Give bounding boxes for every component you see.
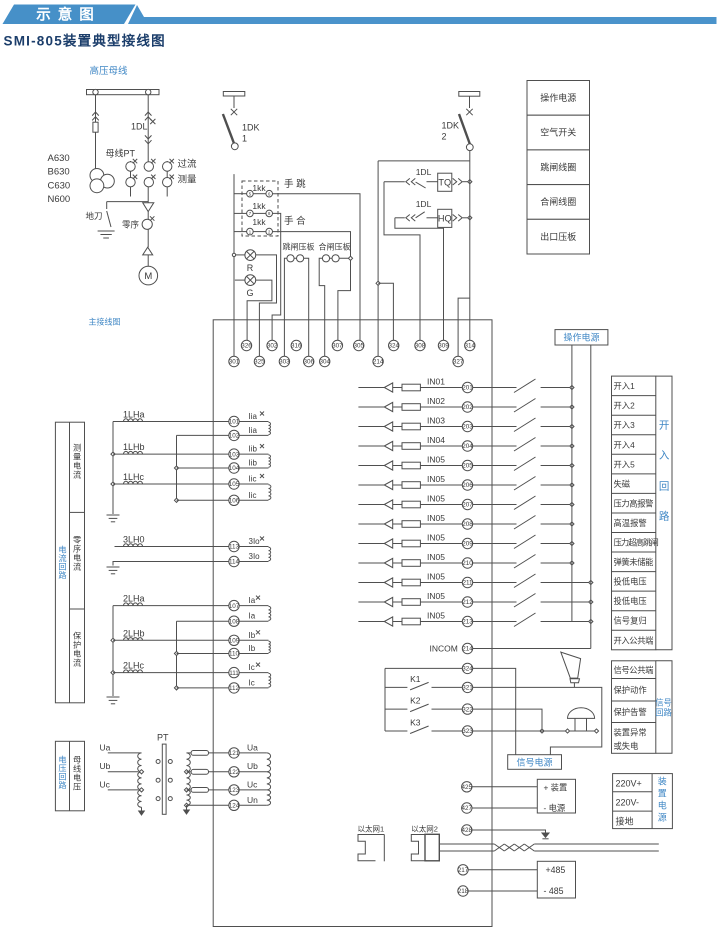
- svg-text:手 跳: 手 跳: [284, 178, 306, 190]
- terminal 211: [462, 577, 473, 587]
- terminal 201: [462, 382, 473, 392]
- svg-text:1LHc: 1LHc: [123, 472, 145, 482]
- PT core bar: [162, 744, 166, 814]
- svg-text:3Io: 3Io: [249, 552, 261, 561]
- label 母线电压 vertical: [73, 756, 81, 792]
- earth switch blade: [107, 211, 111, 227]
- device winding 1LHa bottom stub: [239, 434, 268, 436]
- wire 205 to supply bus: [541, 465, 572, 467]
- wire 210 to supply bus: [541, 562, 572, 564]
- junction input bus 209: [570, 541, 574, 545]
- wire 213 tri-res: [393, 621, 402, 623]
- wire INCOM to supply bus: [473, 648, 591, 650]
- wire HQ blade to coil: [427, 217, 438, 219]
- svg-text:206: 206: [462, 482, 473, 489]
- svg-text:操作电源: 操作电源: [540, 92, 576, 103]
- svg-text:+ 装置: + 装置: [544, 782, 568, 792]
- CT 2LHb primary line: [113, 639, 229, 641]
- wire 1kk left bus: [233, 174, 235, 356]
- svg-text:103: 103: [229, 451, 240, 458]
- junction HQ-out on bus: [468, 216, 472, 220]
- device winding 2LHb bottom stub: [239, 653, 268, 655]
- svg-text:电: 电: [58, 755, 66, 765]
- connector chevrons HQ out: [453, 215, 463, 222]
- device winding 1LHb bottom stub: [239, 467, 268, 469]
- svg-text:218: 218: [458, 888, 469, 895]
- 信号电源 label box: [508, 755, 562, 770]
- svg-text:1DL: 1DL: [416, 167, 432, 177]
- device voltage winding a: [267, 753, 271, 772]
- device winding 1LHc bottom stub: [239, 499, 268, 501]
- CT 1LHb primary line: [113, 453, 229, 455]
- wire HQ row left segment: [395, 217, 405, 219]
- wire 207 to terminal: [420, 504, 462, 506]
- junction input bus 202: [570, 405, 574, 409]
- CT 1LHc winding: [124, 481, 143, 484]
- svg-text:122: 122: [229, 769, 240, 776]
- CT circle col1 xmark1: [133, 159, 137, 163]
- svg-text:M: M: [144, 271, 152, 282]
- svg-text:TQ: TQ: [438, 177, 451, 187]
- terminal 217: [458, 865, 469, 875]
- wire TQ out to bus: [463, 181, 470, 183]
- 1DK1 stem: [233, 96, 235, 108]
- svg-text:111: 111: [229, 670, 239, 677]
- svg-text:112: 112: [229, 685, 240, 692]
- svg-text:IN05: IN05: [427, 591, 445, 601]
- RS485 box: [537, 861, 575, 898]
- wire HQ out to bus: [463, 217, 470, 219]
- wire return 108: [177, 620, 229, 622]
- external contact blade 205: [514, 457, 536, 471]
- wire K left bus: [384, 668, 386, 731]
- CT circle col1 row1: [126, 162, 135, 171]
- junction prot bus 2LHc: [111, 671, 115, 675]
- opto LED triangle 203: [384, 422, 392, 431]
- supply bus 2 (操作电源-): [590, 345, 592, 649]
- label 开入回路 vertical blue: [659, 420, 670, 523]
- opto LED triangle 207: [384, 500, 392, 509]
- terminal 205: [462, 460, 473, 470]
- svg-text:合闸线圈: 合闸线圈: [540, 196, 576, 207]
- svg-text:Ib: Ib: [249, 631, 256, 640]
- svg-text:1: 1: [242, 134, 247, 144]
- svg-text:信号: 信号: [655, 698, 672, 708]
- svg-text:107: 107: [229, 603, 240, 610]
- wire Ua primary: [108, 752, 139, 754]
- binary input row 212 lead: [358, 601, 384, 603]
- zero-seq CT circle: [142, 219, 152, 229]
- svg-text:开入3: 开入3: [614, 420, 636, 430]
- 1DK1 blade: [223, 114, 234, 144]
- wire K3 row left: [385, 730, 407, 732]
- svg-text:212: 212: [462, 599, 473, 606]
- junction 322/323: [540, 729, 544, 733]
- binary input row 210 lead: [358, 562, 384, 564]
- binary input row 213 lead: [358, 621, 384, 623]
- 1kk dashed box: [242, 181, 278, 236]
- wire feeder-B upper: [147, 95, 149, 162]
- connector chevrons HQ in: [406, 215, 416, 222]
- svg-text:以太网2: 以太网2: [411, 824, 438, 834]
- wire 201 to terminal: [420, 387, 462, 389]
- CT 3LH0 winding: [124, 544, 143, 547]
- 开入 label boxes grid: [612, 376, 656, 650]
- svg-text:Ic: Ic: [249, 678, 255, 687]
- svg-text:K2: K2: [410, 696, 421, 706]
- external contact blade 206: [514, 477, 536, 491]
- svg-text:1LHb: 1LHb: [123, 442, 145, 452]
- svg-text:301: 301: [229, 359, 240, 366]
- ground symbol earth-switch: [98, 231, 115, 238]
- label 保护电流 vertical: [73, 631, 82, 668]
- label 信号回路 blue: [655, 698, 672, 718]
- wire 217 to 485 box: [468, 869, 537, 871]
- polarity mark 3LH0: [260, 537, 264, 541]
- polarity mark 1LHc: [260, 474, 264, 478]
- wire 324 to K bus: [385, 667, 462, 669]
- terminal 213: [462, 616, 473, 626]
- wire to lamp R: [236, 254, 245, 256]
- svg-text:204: 204: [462, 443, 473, 450]
- terminal 113: [229, 541, 240, 551]
- opto LED triangle 212: [384, 597, 392, 606]
- svg-text:Iic: Iic: [249, 475, 257, 484]
- terminal 322: [462, 704, 473, 714]
- PT primary winding b: [138, 772, 142, 790]
- svg-text:跳闸线圈: 跳闸线圈: [540, 161, 576, 172]
- wire Uc secondary to fuse: [187, 789, 192, 791]
- wire row1 right to terminal 305: [273, 194, 361, 341]
- wire feeder-B to delta: [147, 187, 149, 203]
- wire row1 left: [234, 193, 247, 195]
- fuse FU-Ua: [191, 751, 208, 756]
- wire 206 external: [473, 484, 517, 486]
- svg-text:IN05: IN05: [427, 610, 445, 620]
- svg-text:B630: B630: [48, 167, 70, 178]
- 1DL aux contact HQ blade: [416, 212, 425, 218]
- connector chevrons feeder-B upper: [145, 112, 152, 120]
- svg-text:427: 427: [462, 805, 473, 812]
- svg-text:地刀: 地刀: [86, 211, 103, 221]
- svg-text:IN05: IN05: [427, 513, 445, 523]
- svg-text:手 合: 手 合: [284, 215, 306, 227]
- terminal 212: [462, 597, 473, 607]
- svg-text:102: 102: [229, 433, 240, 440]
- PT 3-winding circle 3: [90, 179, 104, 193]
- svg-text:324: 324: [388, 343, 399, 350]
- wire 323 external: [473, 730, 598, 732]
- junction PT primary Ub: [139, 770, 143, 774]
- horn speaker flare: [570, 679, 580, 683]
- wire operate block top edge: [378, 160, 470, 162]
- external contact blade 209: [514, 535, 536, 549]
- 1DK1 busbar: [223, 92, 245, 97]
- svg-text:电: 电: [58, 545, 66, 555]
- polarity mark 1LHb: [260, 444, 264, 448]
- terminal 114: [229, 556, 240, 566]
- polarity mark 2LHa: [256, 596, 260, 600]
- wire 209 external: [473, 543, 517, 545]
- svg-text:303: 303: [279, 359, 290, 366]
- svg-text:IN05: IN05: [427, 474, 445, 484]
- svg-text:置: 置: [658, 789, 667, 799]
- svg-text:220V-: 220V-: [616, 798, 640, 808]
- svg-text:1DK: 1DK: [442, 121, 460, 131]
- wire 209 tri-res: [393, 543, 402, 545]
- left voltage box divider: [69, 741, 71, 811]
- wire 209 to terminal: [420, 543, 462, 545]
- opto LED triangle 202: [384, 402, 392, 411]
- svg-text:307: 307: [332, 343, 343, 350]
- wire return 102: [177, 434, 229, 436]
- wire 203 to terminal: [420, 426, 462, 428]
- CT 1LHa winding: [124, 419, 143, 422]
- wire TQ row left segment: [384, 181, 405, 183]
- ground symbol protection group: [107, 697, 120, 704]
- svg-text:Ua: Ua: [247, 743, 258, 753]
- terminal 112: [229, 683, 240, 693]
- junction prot bus 2LHb: [111, 638, 115, 642]
- svg-text:1kk: 1kk: [252, 183, 266, 193]
- opto LED triangle 213: [384, 617, 392, 626]
- svg-text:INCOM: INCOM: [430, 644, 458, 654]
- svg-text:- 485: - 485: [544, 886, 564, 896]
- wire 202 to terminal: [420, 406, 462, 408]
- wire return 104: [177, 467, 229, 469]
- svg-text:IN05: IN05: [427, 552, 445, 562]
- svg-text:203: 203: [462, 424, 473, 431]
- svg-text:信号复归: 信号复归: [614, 616, 647, 626]
- wire Uc primary: [108, 789, 139, 791]
- twisted pair upper out: [534, 843, 659, 845]
- shield ground symbol: [542, 833, 549, 839]
- wire Ua secondary to fuse: [187, 752, 192, 754]
- bell leg right: [586, 718, 588, 731]
- junction meas return 106: [174, 498, 178, 502]
- 信号 label boxes grid: [612, 661, 656, 754]
- svg-text:信号电源: 信号电源: [516, 756, 552, 767]
- svg-text:IN02: IN02: [427, 396, 445, 406]
- power labels text: [616, 779, 642, 827]
- label 1DK 1: [242, 123, 260, 144]
- svg-text:Un: Un: [247, 795, 258, 805]
- svg-text:HQ: HQ: [438, 214, 452, 224]
- junction input bus2 213: [589, 619, 593, 623]
- svg-text:路: 路: [659, 510, 670, 523]
- svg-text:压力高报警: 压力高报警: [614, 498, 654, 508]
- junction PT secondary Un: [184, 803, 188, 807]
- wire branch to terminal 327: [458, 298, 470, 356]
- wire return 106: [177, 499, 229, 501]
- indicator lamp G: [245, 275, 256, 286]
- wire 425 to power box: [472, 786, 537, 788]
- wire 210 tri-res: [393, 562, 402, 564]
- svg-text:Uc: Uc: [100, 780, 111, 790]
- junction prot return 112: [174, 686, 178, 690]
- CT circle col3 xmark2: [170, 175, 174, 179]
- svg-text:源: 源: [658, 813, 667, 823]
- breaker X mark feeder-B: [150, 119, 155, 124]
- PT primary winding c: [138, 790, 142, 807]
- CT 2LHa primary line: [113, 605, 229, 607]
- wire earth-switch tee: [107, 201, 149, 203]
- svg-text:保护告警: 保护告警: [614, 707, 647, 717]
- svg-text:失磁: 失磁: [614, 479, 631, 489]
- CT circle col1 row2: [126, 178, 135, 187]
- svg-text:Ia: Ia: [249, 612, 256, 621]
- CT circle col1 xmark2: [133, 175, 137, 179]
- wire K1 to terminal: [432, 686, 463, 688]
- terminal 110: [229, 648, 240, 658]
- svg-text:电: 电: [73, 461, 81, 471]
- twisted pair lower lead: [439, 850, 494, 852]
- device winding 1LHb coil: [269, 455, 271, 467]
- wire feeder-A upper: [95, 95, 97, 123]
- svg-text:1LHa: 1LHa: [123, 410, 145, 420]
- resistor 210: [402, 560, 420, 567]
- 信号 labels text: [614, 665, 654, 751]
- wire 207 external: [473, 504, 517, 506]
- fuse FU-Ub: [191, 769, 208, 774]
- 1kk contact row3 (1-2): [247, 228, 273, 235]
- device winding 1LHa coil: [269, 422, 271, 434]
- svg-text:105: 105: [229, 481, 240, 488]
- junction input bus 204: [570, 444, 574, 448]
- svg-text:202: 202: [462, 404, 473, 411]
- zero-seq CT xmark: [150, 216, 154, 220]
- wire row2 right to terminal 302: [272, 213, 281, 340]
- resistor 212: [402, 599, 420, 606]
- wire 210 external: [473, 562, 517, 564]
- terminal 122: [229, 767, 240, 777]
- wire close-plate left to terminal 304: [319, 258, 325, 356]
- terminal 209: [462, 538, 473, 548]
- resistor 206: [402, 482, 420, 489]
- close coil HQ box: [438, 209, 452, 227]
- external contact blade 203: [514, 418, 536, 432]
- CT circle col2 row1: [144, 162, 153, 171]
- CT circle col3 row1: [163, 162, 172, 171]
- resistor 208: [402, 521, 420, 528]
- svg-text:1DL: 1DL: [131, 122, 148, 132]
- device winding 3LH0 top stub: [239, 546, 268, 548]
- wire operate block left edge to terminal 214: [377, 161, 379, 356]
- svg-text:压: 压: [73, 783, 81, 792]
- PT secondary neutral arrow: [184, 805, 190, 814]
- ground symbol zero-seq: [107, 567, 120, 574]
- junction bell left: [565, 729, 569, 733]
- ground symbol measurement group: [107, 515, 120, 522]
- device winding 1LHc coil: [269, 485, 271, 500]
- svg-text:Ib: Ib: [249, 644, 256, 653]
- terminal 427: [462, 803, 473, 813]
- terminal 214 INCOM: [462, 643, 473, 653]
- svg-text:序: 序: [73, 544, 81, 554]
- svg-text:高压母线: 高压母线: [90, 65, 129, 77]
- binary input row 208 lead: [358, 523, 384, 525]
- junction input bus 207: [570, 502, 574, 506]
- label 电压回路 vertical blue: [58, 755, 66, 791]
- svg-text:量: 量: [73, 453, 81, 462]
- wire 427 to power box: [472, 807, 537, 809]
- wire 211 external: [473, 582, 517, 584]
- svg-text:1DL: 1DL: [416, 199, 432, 209]
- external contact blade 202: [514, 399, 536, 413]
- CT 2LHc winding: [124, 670, 143, 673]
- terminal 203: [462, 421, 473, 431]
- junction operate-left: [376, 281, 380, 285]
- opto LED triangle 201: [384, 383, 392, 392]
- CT circle col3 row2: [163, 178, 172, 187]
- wire 210 to terminal: [420, 562, 462, 564]
- svg-text:母线PT: 母线PT: [106, 148, 136, 159]
- opto LED triangle 206: [384, 480, 392, 489]
- svg-text:2LHb: 2LHb: [123, 628, 145, 638]
- 1DK2 X mark: [466, 109, 472, 115]
- device winding 2LHc bottom stub: [239, 687, 268, 689]
- terminal 321: [462, 682, 473, 692]
- svg-text:3LH0: 3LH0: [123, 535, 145, 545]
- device winding 1LHa top stub: [239, 421, 268, 423]
- svg-text:开入1: 开入1: [614, 381, 636, 391]
- terminal 204: [462, 441, 473, 451]
- svg-text:合闸压板: 合闸压板: [319, 242, 351, 252]
- svg-text:PT: PT: [157, 733, 169, 743]
- wire 205 external: [473, 465, 517, 467]
- svg-text:213: 213: [462, 619, 473, 626]
- 1DK2 stem: [469, 96, 471, 108]
- wire Ub secondary to fuse: [187, 771, 192, 773]
- wire protection return bus: [176, 621, 178, 688]
- terminal circles bottom row (301 325 303 306 304 214 327): [229, 356, 464, 366]
- svg-text:K3: K3: [410, 718, 421, 728]
- terminal 208: [462, 519, 473, 529]
- svg-text:IN01: IN01: [427, 376, 445, 386]
- svg-text:309: 309: [438, 343, 449, 350]
- PT secondary winding b: [187, 772, 191, 790]
- wire feeder-B CT0 to arrow: [147, 229, 149, 247]
- svg-text:306: 306: [303, 359, 314, 366]
- trip pressure plate: [287, 255, 304, 262]
- svg-text:207: 207: [462, 502, 473, 509]
- wire TQ blade to coil: [427, 181, 438, 183]
- wire fuse to terminal 123: [209, 789, 229, 791]
- wire 204 to supply bus: [541, 445, 572, 447]
- external contact blade 204: [514, 438, 536, 452]
- svg-text:214: 214: [462, 646, 473, 653]
- binary input row 202 lead: [358, 406, 384, 408]
- busbar tap circle right: [146, 89, 151, 94]
- wire 212 tri-res: [393, 601, 402, 603]
- lamp R open terminal: [232, 253, 235, 256]
- 操作电源 label box: [555, 330, 608, 345]
- opto LED triangle 210: [384, 558, 392, 567]
- binary input row 203 lead: [358, 426, 384, 428]
- svg-text:过流: 过流: [178, 158, 198, 170]
- 1kk contact row1 (5-6): [247, 190, 273, 197]
- svg-text:弹簧未储能: 弹簧未储能: [614, 557, 654, 567]
- svg-text:装: 装: [658, 776, 667, 787]
- opto LED triangle 211: [384, 578, 392, 587]
- resistor 213: [402, 618, 420, 625]
- svg-text:电: 电: [73, 553, 81, 563]
- svg-text:高温报警: 高温报警: [614, 518, 647, 528]
- svg-text:425: 425: [462, 784, 473, 791]
- svg-text:Ub: Ub: [100, 761, 111, 771]
- junction input bus 203: [570, 424, 574, 428]
- wire K3 to terminal: [432, 730, 463, 732]
